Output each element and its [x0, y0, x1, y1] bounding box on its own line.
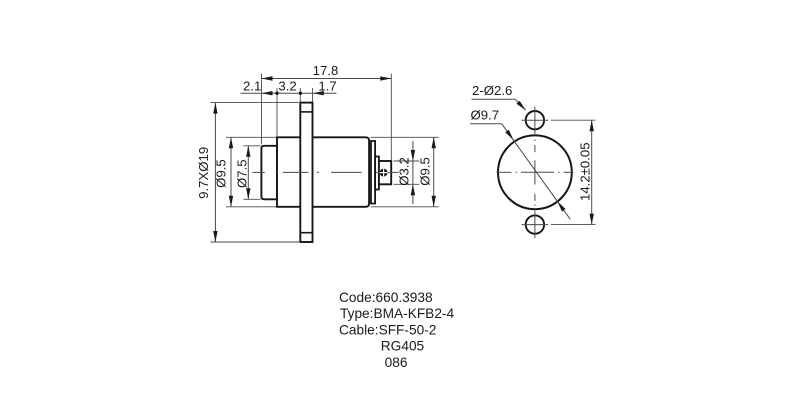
dimension chain 2.1 / 3.2 / 1.7 [241, 88, 337, 137]
svg-text:3.2: 3.2 [278, 79, 296, 94]
wire: lower hole horizontal centermark [522, 224, 549, 226]
svg-text:Type:BMA-KFB2-4: Type:BMA-KFB2-4 [340, 306, 454, 321]
dimension Ø7.5 left [243, 146, 260, 200]
wire: centerline over pin [376, 171, 399, 173]
svg-text:086: 086 [385, 355, 408, 370]
dimension Ø9.5 left [226, 137, 276, 207]
svg-text:RG405: RG405 [381, 338, 425, 353]
dimension 14.2 +/- 0.05 hole spacing [551, 120, 596, 224]
dimension 9.7 x Ø19 flange [210, 103, 299, 242]
svg-text:Ø7.5: Ø7.5 [234, 159, 249, 188]
dimension Ø3.2 pin [394, 141, 420, 204]
wire: horizontal centerline front view [496, 171, 573, 173]
svg-text:Cable:SFF-50-2: Cable:SFF-50-2 [339, 323, 436, 338]
svg-text:1.7: 1.7 [318, 79, 336, 94]
dimension Ø9.5 right [371, 137, 439, 207]
svg-text:Ø3.2: Ø3.2 [397, 157, 412, 186]
main body Ø9.5 [277, 137, 369, 207]
svg-text:2.1: 2.1 [243, 79, 261, 94]
front view: upper mounting hole Ø2.6 [526, 111, 544, 129]
pin Ø3.2 [379, 161, 391, 184]
svg-text:Code:660.3938: Code:660.3938 [339, 290, 433, 305]
flange mounting hole upper edge line [300, 111, 312, 113]
wire: main centerline of side view [252, 171, 361, 173]
flange mounting hole lower edge line [300, 232, 312, 234]
wire: upper hole horizontal centermark [522, 119, 549, 121]
svg-text:2-Ø2.6: 2-Ø2.6 [472, 83, 512, 98]
front view: lower mounting hole Ø2.6 [526, 215, 544, 233]
front view: flange outline circle Ø9.7 [498, 135, 572, 209]
dimension 17.8 overall length [262, 74, 392, 161]
pin contact circle [380, 169, 388, 177]
flange 9.7 x Ø19 [300, 103, 312, 242]
wire: vertical centerline front view [534, 107, 536, 239]
svg-text:Ø9.5: Ø9.5 [417, 157, 432, 186]
svg-text:9.7XØ19: 9.7XØ19 [196, 147, 211, 199]
left cylinder Ø7.5 (rear body) [261, 146, 277, 200]
svg-text:14.2±0.05: 14.2±0.05 [577, 142, 592, 201]
leader 2-Ø2.6 [472, 99, 526, 110]
svg-text:17.8: 17.8 [313, 63, 339, 78]
ring step Ø4.5 [375, 157, 379, 190]
leader Ø9.7 [470, 124, 570, 220]
svg-text:Ø9.5: Ø9.5 [213, 159, 228, 188]
ring step Ø8.5 [371, 141, 375, 204]
svg-text:Ø9.7: Ø9.7 [471, 108, 500, 123]
